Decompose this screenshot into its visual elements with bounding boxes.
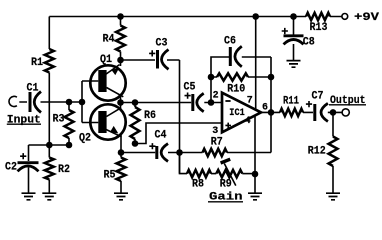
svg-text:C5: C5	[184, 82, 196, 94]
wire pin 7 vertical	[255, 17, 257, 110]
svg-text:R12: R12	[308, 145, 326, 157]
wire lower-left node line	[29, 144, 70, 146]
wire Q2 base stub	[82, 122, 98, 124]
wire Q1 base stub	[82, 80, 98, 82]
svg-text:R13: R13	[310, 22, 328, 34]
svg-text:C6: C6	[224, 35, 236, 47]
capacitor C1	[29, 92, 32, 112]
wire R8 corner lead	[180, 153, 188, 174]
svg-text:C8: C8	[303, 37, 315, 49]
+9V supply terminal	[342, 14, 348, 20]
node input/R3 junction	[66, 99, 73, 106]
node output pin6	[268, 109, 275, 116]
svg-text:R9: R9	[220, 179, 232, 191]
node rail C8 junction	[290, 13, 297, 20]
svg-text:R8: R8	[192, 179, 204, 191]
wire Q1 top lead	[120, 60, 122, 66]
svg-text:C1: C1	[27, 83, 39, 95]
svg-text:Q2: Q2	[79, 132, 91, 144]
node R10 left junction	[208, 74, 215, 81]
svg-text:3: 3	[212, 126, 218, 137]
svg-text:R10: R10	[227, 84, 245, 96]
capacitor C8	[293, 17, 295, 61]
resistor R5	[120, 153, 122, 193]
ground below R5	[114, 193, 128, 200]
resistor R10	[211, 76, 271, 78]
potentiometer R9	[216, 170, 242, 177]
capacitor C2	[28, 145, 30, 193]
node R4/C3 tap junction	[117, 57, 124, 64]
svg-text:4: 4	[245, 116, 251, 127]
node Q1/Q2 collector junction	[117, 99, 124, 106]
svg-text:R11: R11	[283, 95, 299, 107]
input jack terminal	[9, 96, 17, 106]
wire R7 feedback line	[180, 152, 272, 154]
wire emitter line through C4	[121, 152, 180, 154]
resistor R6	[134, 103, 136, 144]
transistor Q2	[90, 104, 125, 139]
ground below R2	[42, 193, 56, 200]
node C4/R7/R8 junction	[176, 149, 183, 156]
wire R9 to ground node	[242, 173, 255, 175]
wire top supply rail	[49, 16, 341, 18]
resistor R4	[120, 17, 122, 61]
resistor R3	[68, 102, 70, 145]
ground below R12	[326, 193, 340, 200]
svg-text:R6: R6	[144, 110, 156, 122]
svg-text:+9V: +9V	[354, 12, 379, 24]
ground below pin 4	[248, 193, 262, 200]
output terminal	[342, 109, 349, 116]
capacitor C7	[313, 104, 316, 121]
svg-text:R5: R5	[104, 169, 116, 181]
wire feedback left vertical	[211, 57, 229, 103]
resistor R11	[280, 109, 303, 116]
wire input line	[19, 101, 82, 103]
resistor R2	[48, 145, 50, 193]
resistor R12	[332, 112, 334, 192]
capacitor C5	[191, 94, 194, 111]
svg-text:R3: R3	[53, 114, 65, 126]
svg-text:2: 2	[213, 91, 219, 102]
svg-text:C2: C2	[5, 162, 17, 174]
wire Q2 emitter lead	[120, 135, 122, 153]
node R1/R2 junction	[46, 142, 53, 149]
op-amp IC1	[222, 93, 261, 133]
wire C6 right to feedback right vertical	[242, 57, 271, 153]
wire C3 line and right bus	[121, 60, 180, 174]
wire R8-R9 link	[211, 173, 216, 175]
node R6 top junction	[132, 99, 139, 106]
node R9/pin4/ground junction	[252, 171, 259, 178]
svg-text:R4: R4	[103, 33, 115, 45]
wire output line	[261, 111, 342, 113]
node input/base-bus junction	[79, 99, 86, 106]
resistor R8	[187, 170, 211, 177]
svg-text:C7: C7	[312, 90, 324, 102]
node rail/R4 junction	[117, 13, 124, 20]
wire pin 4 vertical to ground	[254, 116, 256, 193]
wire R6 bottom to pin3	[135, 123, 222, 144]
svg-text:IC1: IC1	[229, 108, 245, 119]
resistor R1	[45, 49, 54, 73]
svg-text:C3: C3	[156, 38, 168, 50]
ground below C2	[22, 193, 36, 200]
svg-text:Q1: Q1	[100, 54, 112, 66]
resistor R13	[306, 13, 330, 20]
svg-text:7: 7	[247, 96, 253, 107]
node R3 bottom junction	[66, 142, 73, 149]
node C7/R12 junction	[330, 109, 337, 116]
svg-text:R1: R1	[31, 57, 43, 69]
capacitor C6	[229, 47, 232, 66]
svg-text:C4: C4	[155, 129, 167, 141]
svg-text:R7: R7	[211, 136, 223, 148]
capacitor C4	[155, 146, 158, 159]
resistor R7	[203, 149, 228, 156]
wire base bus vertical	[81, 81, 83, 123]
ground below C8	[287, 61, 301, 68]
node R6 bottom junction	[132, 140, 139, 147]
node Q2 emitter/R5/C4 junction	[118, 149, 125, 156]
capacitor C3	[156, 50, 159, 69]
node pin2/feedback junction	[208, 99, 215, 106]
node R10 right junction	[268, 74, 275, 81]
wire collector node line (Q1/Q2 to C5)	[121, 96, 223, 109]
wire left vertical from rail to R1 and down to lower node	[48, 17, 50, 146]
svg-text:R2: R2	[58, 164, 70, 176]
transistor Q1	[90, 65, 125, 101]
node rail pin7 junction	[252, 13, 259, 20]
